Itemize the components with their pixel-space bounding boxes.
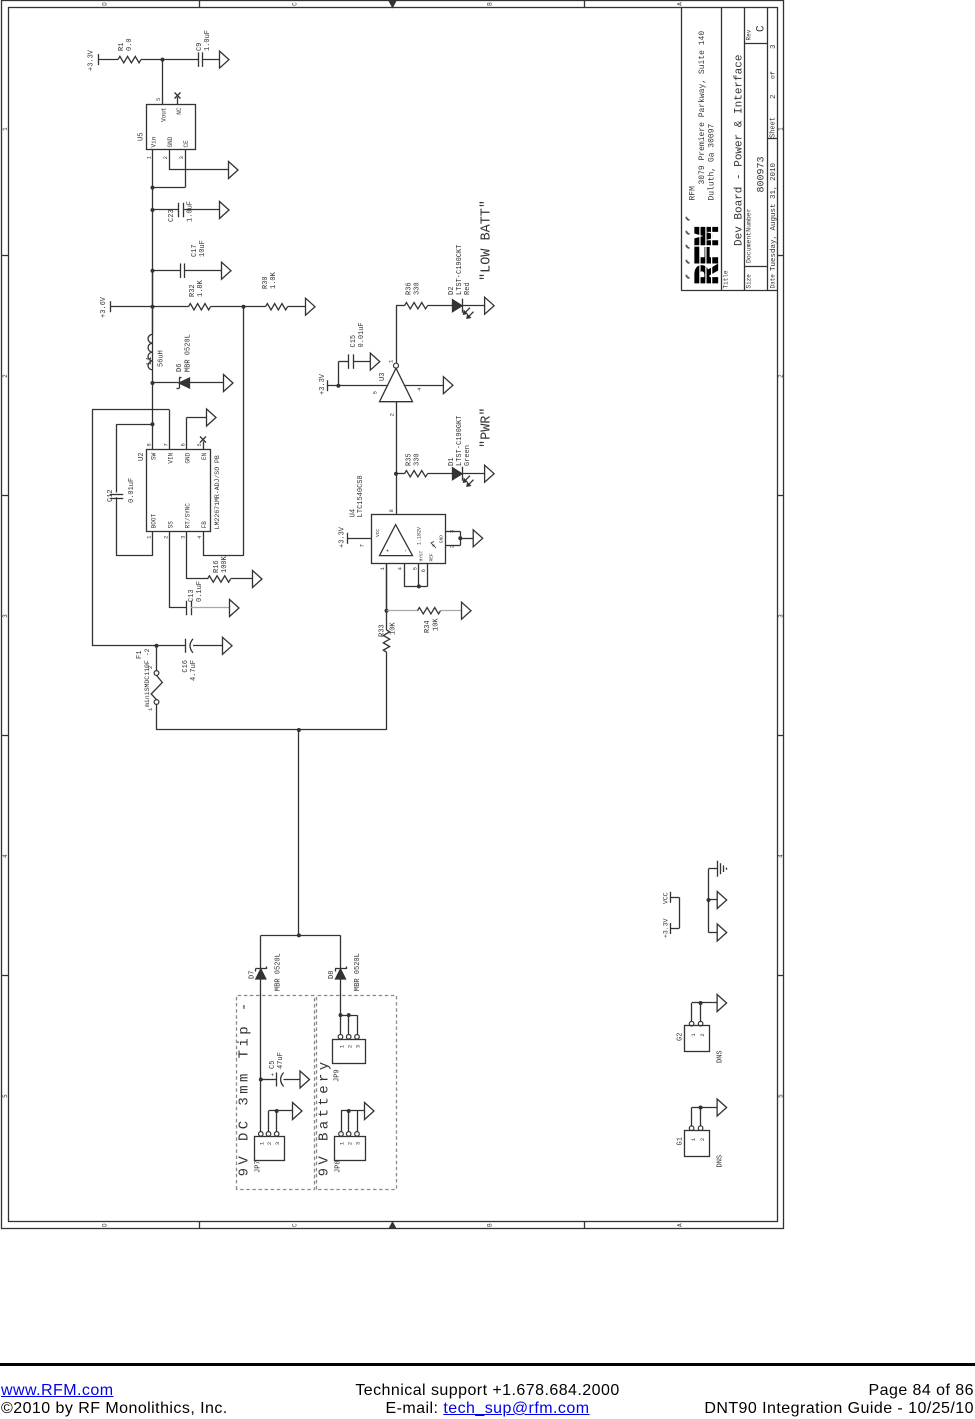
svg-text:Duluth, Ga 30097: Duluth, Ga 30097 (708, 123, 717, 200)
svg-text:2: 2 (163, 536, 170, 539)
svg-text:GND: GND (167, 136, 174, 147)
svg-text:DNS: DNS (717, 1050, 725, 1063)
svg-text:1.0uF: 1.0uF (187, 201, 195, 222)
svg-text:RT/SYNC: RT/SYNC (185, 503, 192, 529)
svg-text:330: 330 (414, 453, 422, 466)
svg-text:5: 5 (155, 98, 162, 101)
svg-text:2: 2 (449, 545, 456, 548)
svg-text:2: 2 (699, 1138, 706, 1141)
svg-text:6: 6 (420, 569, 427, 572)
svg-text:7: 7 (359, 544, 366, 547)
svg-text:Green: Green (464, 445, 472, 466)
svg-text:Dev Board - Power & Interface: Dev Board - Power & Interface (734, 55, 746, 246)
svg-text:L1: L1 (146, 357, 154, 365)
svg-text:G2: G2 (677, 1033, 685, 1041)
svg-text:3: 3 (777, 614, 784, 618)
svg-text:3: 3 (355, 1142, 362, 1145)
svg-text:8: 8 (146, 443, 153, 446)
svg-text:10K: 10K (390, 622, 398, 635)
svg-text:0.01uF: 0.01uF (358, 322, 366, 347)
svg-text:R35: R35 (406, 453, 414, 466)
svg-text:3: 3 (770, 44, 778, 49)
svg-text:F1: F1 (136, 651, 144, 659)
svg-text:0.1uF: 0.1uF (196, 581, 204, 602)
svg-text:C9: C9 (196, 43, 204, 51)
svg-text:47uF: 47uF (277, 1052, 285, 1069)
svg-text:SS: SS (168, 521, 175, 529)
svg-text:D1: D1 (448, 458, 456, 466)
svg-text:+: + (385, 549, 392, 553)
svg-text:U5: U5 (138, 133, 146, 141)
svg-text:C: C (292, 1223, 299, 1227)
svg-text:0.0: 0.0 (126, 38, 134, 51)
svg-text:R16: R16 (213, 560, 221, 573)
svg-text:FB: FB (201, 521, 208, 529)
svg-text:C17: C17 (191, 244, 199, 257)
svg-text:Vout: Vout (161, 108, 168, 122)
svg-text:+3.3V: +3.3V (663, 918, 670, 938)
svg-text:B: B (487, 2, 494, 6)
svg-text:C15: C15 (350, 335, 358, 348)
svg-text:-: - (403, 549, 410, 553)
svg-text:10K: 10K (433, 618, 441, 631)
svg-text:VIN: VIN (168, 452, 175, 463)
svg-text:4: 4 (397, 566, 404, 570)
svg-text:Rev: Rev (746, 29, 753, 40)
svg-text:MBR 0520L: MBR 0520L (354, 953, 362, 991)
svg-text:HYST: HYST (419, 550, 425, 561)
svg-text:R36: R36 (406, 282, 414, 295)
svg-text:1: 1 (339, 1044, 346, 1048)
svg-text:3: 3 (178, 156, 185, 159)
svg-text:Sheet: Sheet (770, 117, 778, 138)
svg-text:NC: NC (176, 107, 183, 115)
svg-text:JP7: JP7 (255, 1160, 263, 1173)
svg-text:D6: D6 (176, 364, 184, 372)
svg-text:D8: D8 (328, 971, 336, 979)
svg-text:JP9: JP9 (334, 1069, 342, 1082)
svg-text:1.0uF: 1.0uF (204, 30, 212, 51)
svg-text:D: D (102, 2, 109, 6)
svg-text:C13: C13 (188, 589, 196, 602)
svg-text:REF: REF (429, 553, 435, 561)
svg-text:D7: D7 (249, 971, 257, 979)
svg-text:GND: GND (185, 452, 192, 463)
svg-text:+3.3V: +3.3V (319, 373, 327, 395)
svg-text:1: 1 (146, 535, 153, 539)
svg-text:R32: R32 (189, 284, 197, 297)
svg-text:SW: SW (151, 452, 158, 460)
svg-text:4: 4 (2, 854, 9, 858)
svg-text:1: 1 (388, 359, 395, 363)
svg-text:3: 3 (355, 1045, 362, 1048)
svg-text:2: 2 (266, 1142, 273, 1145)
svg-text:C: C (292, 2, 299, 6)
svg-text:2: 2 (346, 1045, 353, 1048)
svg-text:R33: R33 (379, 624, 387, 637)
svg-text:1.0K: 1.0K (270, 271, 278, 289)
svg-text:CE: CE (183, 140, 190, 148)
svg-text:U3: U3 (379, 373, 387, 381)
svg-text:BOOT: BOOT (151, 513, 158, 528)
svg-text:R30: R30 (262, 276, 270, 289)
svg-text:EN: EN (201, 452, 208, 460)
svg-text:C16: C16 (182, 660, 190, 673)
svg-text:56uH: 56uH (158, 350, 166, 367)
svg-text:5: 5 (372, 391, 379, 394)
svg-text:+: + (270, 1073, 277, 1077)
svg-text:C: C (756, 25, 768, 32)
svg-text:Vin: Vin (151, 136, 158, 147)
svg-text:B: B (487, 1223, 494, 1227)
svg-text:1.8K: 1.8K (197, 279, 205, 297)
svg-text:3: 3 (180, 536, 187, 539)
svg-text:330: 330 (414, 282, 422, 295)
svg-text:VCC: VCC (663, 892, 670, 904)
svg-text:Title: Title (723, 270, 730, 288)
svg-text:RFM: RFM (689, 186, 698, 201)
svg-text:2: 2 (699, 1033, 706, 1036)
svg-text:C23: C23 (168, 209, 176, 222)
svg-text:C12: C12 (107, 489, 115, 502)
svg-text:Date: Date (770, 274, 777, 289)
svg-text:LTST-C190GKT: LTST-C190GKT (456, 416, 464, 466)
svg-text:C5: C5 (269, 1061, 277, 1069)
svg-text:1: 1 (258, 1141, 265, 1145)
svg-text:D: D (102, 1223, 109, 1227)
svg-text:LTST-C190CKT: LTST-C190CKT (456, 245, 464, 295)
svg-text:9V Battery: 9V Battery (317, 1058, 333, 1176)
svg-text:1: 1 (690, 1137, 697, 1141)
svg-text:2: 2 (162, 156, 169, 159)
svg-text:5: 5 (412, 567, 419, 570)
svg-text:1: 1 (777, 127, 784, 131)
svg-text:7: 7 (163, 443, 170, 446)
svg-text:+3.3V: +3.3V (339, 526, 347, 548)
svg-text:0.01uF: 0.01uF (128, 478, 136, 503)
svg-text:+3.3V: +3.3V (88, 49, 96, 71)
svg-text:1: 1 (2, 127, 9, 131)
svg-text:8: 8 (388, 509, 395, 512)
svg-text:LTC1540CS8: LTC1540CS8 (357, 475, 365, 517)
svg-text:Size: Size (746, 274, 753, 289)
svg-text:1: 1 (379, 566, 386, 570)
svg-text:3: 3 (274, 1142, 281, 1145)
svg-text:U2: U2 (138, 453, 146, 461)
svg-text:1: 1 (146, 155, 153, 159)
svg-text:DNS: DNS (717, 1155, 725, 1168)
svg-text:MBR 0520L: MBR 0520L (185, 334, 193, 372)
svg-text:100K: 100K (221, 555, 229, 573)
svg-text:"PWR": "PWR" (480, 407, 495, 448)
svg-text:A: A (677, 1223, 684, 1227)
svg-text:1: 1 (690, 1033, 697, 1037)
svg-text:5: 5 (2, 1094, 9, 1098)
svg-text:A: A (677, 2, 684, 6)
svg-text:GND: GND (439, 535, 445, 543)
svg-text:VCC: VCC (375, 529, 381, 537)
svg-text:1: 1 (339, 1141, 346, 1145)
svg-text:3079 Premiere Parkway, Suite 1: 3079 Premiere Parkway, Suite 140 (698, 31, 707, 185)
svg-text:D2: D2 (448, 287, 456, 295)
svg-text:+3.6V: +3.6V (100, 296, 108, 318)
svg-text:4: 4 (777, 854, 784, 858)
svg-text:2: 2 (770, 94, 778, 99)
svg-text:3: 3 (2, 614, 9, 618)
svg-text:R34: R34 (424, 620, 432, 633)
svg-text:800973: 800973 (757, 156, 768, 192)
svg-text:9V DC 3mm Tip -: 9V DC 3mm Tip - (237, 999, 253, 1176)
svg-text:10uF: 10uF (199, 240, 207, 257)
svg-text:MBR 0520L: MBR 0520L (275, 953, 283, 991)
svg-text:R1: R1 (118, 43, 126, 51)
svg-text:G1: G1 (677, 1137, 685, 1145)
svg-text:"LOW BATT": "LOW BATT" (480, 200, 495, 281)
svg-text:miniSMDC110F -2: miniSMDC110F -2 (144, 648, 151, 707)
svg-text:5: 5 (777, 1094, 784, 1098)
svg-text:of: of (770, 71, 777, 79)
svg-text:DocumentNumber: DocumentNumber (746, 208, 753, 263)
svg-text:2: 2 (777, 374, 784, 378)
svg-text:LM22671MR-ADJ/SO PB: LM22671MR-ADJ/SO PB (214, 455, 221, 529)
svg-text:2: 2 (346, 1142, 353, 1145)
svg-text:2: 2 (2, 374, 9, 378)
svg-text:4.7uF: 4.7uF (190, 660, 198, 681)
svg-text:5: 5 (196, 443, 203, 446)
svg-text:JP8: JP8 (335, 1160, 343, 1173)
svg-text:6: 6 (180, 443, 187, 446)
svg-text:4: 4 (416, 387, 423, 391)
svg-text:3: 3 (449, 530, 456, 533)
svg-text:2: 2 (389, 413, 396, 416)
svg-text:Red: Red (464, 282, 472, 295)
svg-text:Tuesday, August 31, 2010: Tuesday, August 31, 2010 (770, 162, 778, 271)
svg-text:1.182V: 1.182V (417, 527, 423, 545)
svg-text:4: 4 (196, 535, 203, 539)
